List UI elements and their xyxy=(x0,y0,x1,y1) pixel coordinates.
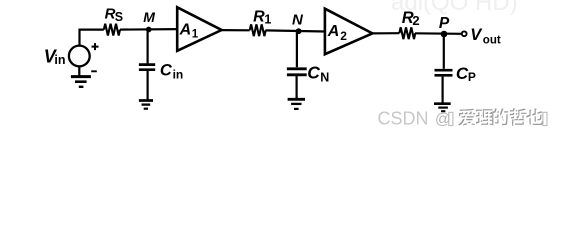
svg-text:S: S xyxy=(115,10,123,24)
watermark char 哲 xyxy=(510,108,527,125)
svg-text:CSDN: CSDN xyxy=(378,108,429,128)
label A1 xyxy=(179,22,199,41)
watermark CSDN text xyxy=(378,108,451,128)
terminal Vout open circle xyxy=(462,31,467,36)
svg-text:C: C xyxy=(307,62,320,82)
watermark char 也 xyxy=(526,109,543,126)
label P xyxy=(439,15,450,32)
svg-text:P: P xyxy=(439,15,450,32)
watermark char 的 xyxy=(492,108,508,125)
svg-text:1: 1 xyxy=(192,29,199,41)
svg-text:M: M xyxy=(143,9,155,25)
node M xyxy=(146,27,152,33)
label Cin xyxy=(160,61,183,81)
wire R1 to A2 input xyxy=(265,30,325,31)
label A2 xyxy=(327,23,347,43)
ground (below Vin) xyxy=(71,77,91,87)
op-amp A2 xyxy=(325,9,373,55)
label N xyxy=(292,12,304,29)
wire RS to A1 input xyxy=(120,28,178,31)
wire M down to Cin xyxy=(147,30,149,64)
svg-text:R: R xyxy=(253,8,265,25)
voltage source Vin xyxy=(69,43,99,71)
label Vout xyxy=(470,26,501,47)
svg-text:in: in xyxy=(54,53,65,67)
svg-text:A: A xyxy=(327,23,340,40)
svg-text:N: N xyxy=(320,70,329,84)
svg-text:out: out xyxy=(483,34,501,46)
svg-text:2: 2 xyxy=(412,13,419,28)
svg-text:A: A xyxy=(179,22,192,39)
resistor RS xyxy=(104,24,120,36)
wire CN to ground xyxy=(296,76,298,98)
node P xyxy=(441,31,448,38)
ground (below CN) xyxy=(288,99,305,109)
wire R2 to Vout terminal xyxy=(415,32,461,35)
svg-text:P: P xyxy=(468,70,476,84)
svg-text:V: V xyxy=(470,26,483,44)
svg-text:C: C xyxy=(160,61,173,79)
capacitor Cin xyxy=(139,65,155,70)
label CN xyxy=(307,62,329,84)
svg-text:2: 2 xyxy=(340,29,347,43)
label R1 xyxy=(253,8,271,26)
wire source-top to corner to RS xyxy=(80,30,104,46)
wire source-bottom to ground xyxy=(78,67,80,76)
node N xyxy=(296,28,302,34)
label R2 xyxy=(402,9,420,28)
svg-text:N: N xyxy=(292,12,304,29)
watermark tofu box 2 xyxy=(543,112,547,125)
resistor R1 xyxy=(250,24,266,36)
ground (below Cin) xyxy=(139,101,153,109)
wire A1 output to R1 xyxy=(222,29,250,31)
op-amp A1 xyxy=(177,7,221,51)
watermark tofu box 1 xyxy=(449,112,453,125)
wire P down to CP xyxy=(443,35,445,69)
label RS xyxy=(105,5,124,24)
label M xyxy=(143,9,155,25)
capacitor CP xyxy=(435,70,453,75)
label Vin xyxy=(44,47,66,68)
svg-text:in: in xyxy=(173,67,184,81)
faint HD watermark top-right xyxy=(391,0,518,16)
svg-text:1: 1 xyxy=(264,12,271,26)
resistor R2 xyxy=(399,27,415,39)
wire CP to ground xyxy=(442,77,444,103)
watermark char 理 xyxy=(476,109,494,125)
ground (below CP) xyxy=(434,104,451,112)
capacitor CN xyxy=(287,69,307,75)
wire Cin to ground xyxy=(147,71,149,100)
watermark char 爱 xyxy=(458,109,475,126)
label CP xyxy=(456,64,476,84)
wire N down to CN xyxy=(296,31,298,67)
wire A2 output to R2 xyxy=(372,32,399,34)
